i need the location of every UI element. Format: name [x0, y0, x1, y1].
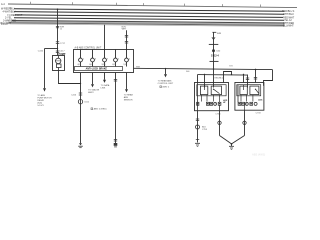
connector ticks on T1 wire [79, 92, 82, 94]
ABS control unit box U1 [74, 50, 134, 73]
relay K2 contact right leg [263, 83, 265, 86]
bus band background [8, 20, 285, 27]
page tick marks above bus L1 [31, 2, 261, 8]
terminal T4 [114, 50, 118, 67]
drop from R2 into relay K1 coil [204, 74, 205, 75]
svg-text:W/B: W/B [136, 67, 141, 69]
wire R2: secondary horizontal [198, 74, 248, 77]
svg-text:C734: C734 [215, 114, 221, 116]
relay K2 terminal legs [241, 95, 253, 111]
svg-text:4(G): 4(G) [77, 64, 81, 66]
svg-text:C552: C552 [84, 102, 90, 104]
wire: pump ground path to junction [59, 71, 81, 84]
relay K1 bottom exit wires [219, 105, 221, 110]
terminal T1 [79, 50, 83, 67]
ground termination of T4 wire [114, 139, 117, 141]
wire: branch to left at y=48.5 [45, 48, 58, 50]
wire R1: long output from box right edge [134, 68, 273, 69]
wire below K1 left to ground [197, 111, 199, 143]
relay K1 terminal glyph row [197, 102, 221, 105]
svg-text:5: 5 [118, 59, 119, 61]
svg-text:C753: C753 [202, 129, 208, 131]
svg-text:14-G/Y: 14-G/Y [1, 23, 9, 26]
wire R1 branch down at x=255.5 [255, 69, 257, 71]
svg-text:7: 7 [107, 59, 108, 61]
svg-text:4WS: 2: 4WS: 2 [162, 87, 170, 89]
node: junction dot on L1 [57, 8, 59, 10]
ground G202 [195, 142, 200, 144]
svg-text:C733: C733 [256, 112, 262, 114]
svg-text:SENSOR: SENSOR [124, 99, 133, 101]
relay K1 inner frame [197, 85, 226, 96]
svg-text:ASSY: ASSY [88, 91, 94, 94]
svg-text:A-B ABS CONTROL UNIT: A-B ABS CONTROL UNIT [75, 47, 102, 50]
splice dot on wire C [212, 49, 215, 52]
relay K1 coil element [200, 86, 207, 95]
connector C717 ticks on wire A [56, 41, 59, 43]
connector ticks above pump box [56, 50, 59, 52]
wire: drop to arrow at x=165.5 [165, 69, 167, 75]
wire R1 end corner down at right [264, 70, 273, 83]
bus line L3 [14, 12, 284, 15]
svg-text:W/R: W/R [217, 33, 222, 35]
relay K2 terminal glyph row [238, 102, 257, 105]
svg-text:RED/BLU: RED/BLU [215, 77, 224, 79]
connector ticks on T5 wire [125, 36, 128, 44]
svg-text:ABS: 2 (RED): ABS: 2 (RED) [94, 108, 107, 111]
wire below T1 to ground [80, 73, 82, 144]
relay K2 through wire [237, 85, 239, 103]
relay K2 inner frame [237, 85, 261, 96]
junction of wire C and R1 [213, 68, 215, 70]
wide connector bar on wire C [209, 43, 219, 45]
svg-text:8(L): 8(L) [89, 64, 93, 66]
wire below T5 to arrow [126, 73, 128, 90]
ground G201 [79, 143, 82, 145]
ABS pump motor box [53, 56, 65, 71]
wire into T5 (from label) [126, 30, 128, 49]
wide tick on wire C [210, 60, 219, 62]
terminal pin numbers [83, 59, 130, 61]
bus line L4 [15, 15, 283, 18]
bus left labels [1, 3, 23, 26]
svg-text:C416: C416 [38, 50, 44, 52]
terminal pin labels [77, 64, 127, 66]
svg-text:CONTROL UNIT: CONTROL UNIT [158, 83, 174, 85]
relay K2 box [235, 83, 264, 111]
wire label W/R with bus-exit ticks [56, 25, 59, 27]
label above T5 wire [122, 27, 127, 31]
svg-text:A-4: A-4 [1, 3, 5, 6]
svg-text:3(W): 3(W) [101, 64, 105, 66]
svg-text:C416: C416 [71, 94, 77, 96]
Y-prong connector on wire C [212, 37, 214, 39]
svg-text:1: 1 [83, 59, 84, 61]
svg-text:C717: C717 [60, 43, 66, 45]
wire below T3 to arrow [104, 73, 106, 80]
relay K1 through wire [197, 83, 199, 111]
destination text block under arrow B [37, 94, 52, 107]
bus line L7 [11, 22, 284, 25]
svg-text:1(B): 1(B) [123, 64, 127, 66]
splice circle [243, 121, 246, 124]
relay K2 coil element [240, 86, 247, 95]
bus line L5 [14, 18, 284, 21]
svg-text:C412-4: C412-4 [211, 54, 220, 57]
svg-text:LINK: LINK [101, 88, 106, 90]
arrow head wire B [43, 88, 46, 91]
bus line L2 [14, 9, 284, 12]
svg-text:WHT: WHT [122, 29, 127, 31]
motor M circle [56, 58, 61, 63]
relay K1 terminal legs [202, 95, 220, 102]
wire C: vertical drop at x=213.5 [213, 32, 215, 87]
svg-text:ANTI-LOCK BRAKE: ANTI-LOCK BRAKE [86, 68, 108, 71]
R2 left corner down into relay K1 [197, 75, 199, 83]
svg-text:BLU/WHT: BLU/WHT [283, 24, 294, 27]
wire below T4 to ground [115, 73, 117, 144]
svg-text:14 G/Y: 14 G/Y [37, 105, 44, 107]
wire below K1 right [219, 111, 221, 136]
wire A: vertical drop from bus L1 at x=57.5 [57, 9, 59, 55]
merge node and ground G203 [231, 143, 233, 145]
relay K2 contact element [250, 86, 259, 95]
wire below T2 to arrow [92, 73, 94, 85]
svg-text:3: 3 [95, 59, 96, 61]
terminal T5 [125, 50, 129, 67]
pump element rect [57, 64, 62, 68]
bus right labels [282, 10, 295, 27]
bus line L6 [12, 21, 284, 24]
svg-text:6(R): 6(R) [112, 64, 116, 66]
drop from R2 into relay K2 [243, 74, 244, 75]
wire B: left branch down to arrow [44, 49, 46, 89]
terminal T3 [103, 50, 107, 67]
start bracket of wire C [212, 31, 216, 33]
splice circle [218, 121, 221, 124]
wire below K2 [244, 110, 246, 135]
terminal T2 [91, 50, 95, 67]
svg-text:W/B: W/B [229, 65, 233, 67]
svg-text:PUMP: PUMP [58, 53, 65, 56]
S-bend from relay K1 contact to R2 [224, 72, 232, 83]
R2 end corner down into relay K2 coil [247, 75, 249, 88]
relay K1 contact element [211, 86, 221, 95]
svg-text:ABS (4WS): ABS (4WS) [252, 153, 265, 157]
note text left of T4 wire [91, 108, 93, 110]
wire into T3 from bus [104, 25, 106, 50]
bus line L9 [10, 24, 284, 27]
bus line L1 (top) [8, 4, 297, 8]
svg-text:2: 2 [129, 59, 130, 61]
splice circle on T1 wire [78, 100, 82, 104]
diagonal to merge [232, 136, 245, 144]
bus line L8 [9, 23, 284, 26]
splice circle on K1 ground wire [196, 125, 200, 129]
ABS control unit label bar [75, 67, 123, 71]
diagonal to merge [220, 136, 232, 144]
relay K1 box [195, 83, 229, 111]
